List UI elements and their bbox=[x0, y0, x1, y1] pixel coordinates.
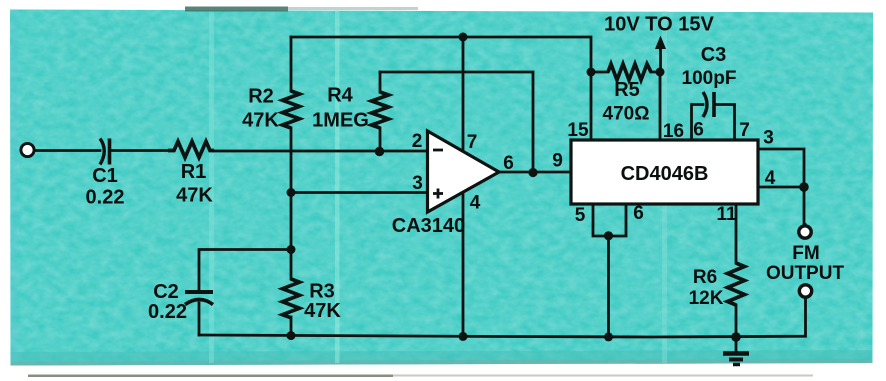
wire R3 bottom lead bbox=[290, 317, 293, 337]
svg-text:100pF: 100pF bbox=[682, 68, 737, 89]
FM output terminal bottom bbox=[799, 285, 811, 297]
svg-text:3: 3 bbox=[763, 128, 774, 149]
svg-text:12K: 12K bbox=[689, 288, 724, 309]
capacitor C1 bbox=[100, 139, 110, 165]
svg-text:15: 15 bbox=[567, 120, 589, 141]
svg-text:6: 6 bbox=[633, 203, 644, 224]
svg-text:11: 11 bbox=[716, 204, 737, 225]
IC U2 CD4046B bbox=[571, 140, 758, 204]
node bottom rail pin5/6 bbox=[604, 332, 613, 341]
wire IC pin5-pin6 link bbox=[593, 204, 626, 236]
svg-text:470Ω: 470Ω bbox=[603, 104, 650, 125]
wire FM bottom terminal down to bottom rail bbox=[199, 299, 806, 338]
pale scan stripes bbox=[209, 11, 214, 363]
node output bbox=[528, 168, 537, 177]
svg-text:7: 7 bbox=[467, 132, 478, 153]
svg-text:CA3140: CA3140 bbox=[392, 215, 465, 237]
bottom scan line bbox=[28, 375, 393, 378]
wire op-amp pin4 vertical bbox=[462, 188, 465, 337]
wire pin3 line bbox=[291, 191, 428, 194]
svg-text:R4: R4 bbox=[327, 85, 353, 107]
wire pin5/6 node down to bottom rail bbox=[607, 236, 610, 337]
svg-text:47K: 47K bbox=[176, 185, 213, 207]
svg-text:47K: 47K bbox=[242, 110, 279, 132]
resistor R2 bbox=[283, 91, 300, 128]
wire R2 bottom to pin3 node and down to C2 node bbox=[290, 128, 293, 279]
wire R4 top lead bbox=[379, 72, 382, 92]
resistor R6 bbox=[728, 263, 745, 305]
svg-text:CD4046B: CD4046B bbox=[621, 163, 709, 185]
svg-text:1MEG: 1MEG bbox=[312, 110, 369, 132]
resistor R1 bbox=[168, 142, 214, 158]
svg-text:16: 16 bbox=[663, 121, 684, 142]
supply arrow bbox=[655, 36, 666, 50]
wire op-amp pin7 vertical bbox=[462, 37, 465, 155]
op-amp U1 CA3140 bbox=[428, 131, 500, 212]
svg-text:4: 4 bbox=[470, 193, 481, 214]
svg-text:6: 6 bbox=[693, 120, 704, 141]
wire junction to FM top terminal bbox=[803, 187, 806, 225]
svg-text:3: 3 bbox=[412, 173, 423, 194]
resistor R3 bbox=[283, 279, 300, 318]
node bottom rail R3 bbox=[287, 331, 296, 340]
resistor R5 bbox=[608, 64, 651, 80]
node R4/pin2 bbox=[375, 147, 384, 156]
wire supply lead bbox=[659, 47, 662, 72]
wire pin16 vertical bbox=[659, 72, 662, 140]
wire input line bbox=[35, 149, 101, 152]
svg-text:C3: C3 bbox=[701, 44, 727, 66]
svg-text:FM: FM bbox=[792, 243, 819, 264]
node R5 right bbox=[656, 68, 665, 77]
svg-text:6: 6 bbox=[503, 153, 514, 174]
wire top rail bbox=[291, 37, 591, 72]
node bottom rail R6/gnd bbox=[731, 332, 741, 342]
svg-text:C1: C1 bbox=[92, 165, 118, 187]
resistor R4 bbox=[372, 92, 389, 128]
wire C2 top branch bbox=[199, 250, 291, 290]
wire IC pin4 to junction bbox=[758, 186, 804, 189]
wire R6 bottom lead bbox=[735, 305, 738, 337]
wire R2 top lead from rail bbox=[290, 37, 293, 91]
wire pin15 vertical bbox=[590, 72, 593, 140]
wire R1 to op-amp pin2 bbox=[214, 150, 428, 153]
svg-text:0.22: 0.22 bbox=[148, 301, 187, 323]
svg-text:7: 7 bbox=[739, 120, 750, 141]
svg-text:R1: R1 bbox=[181, 161, 207, 183]
node bottom rail pin4 bbox=[459, 332, 468, 341]
node top rail pin7 bbox=[459, 33, 468, 42]
wire IC pin11 to R6 bbox=[735, 204, 738, 263]
svg-text:9: 9 bbox=[552, 151, 563, 172]
node R2/pin3 bbox=[287, 188, 296, 197]
capacitor C2 bbox=[185, 292, 213, 305]
capacitor C3 bbox=[703, 92, 714, 117]
svg-text:4: 4 bbox=[765, 168, 776, 189]
top scan smudge bbox=[185, 7, 288, 12]
bottom darker edge of panel bbox=[11, 350, 873, 366]
wire C3 loop bbox=[692, 105, 704, 141]
svg-text:0.22: 0.22 bbox=[86, 187, 125, 209]
svg-text:5: 5 bbox=[575, 205, 586, 226]
wire C2 bottom lead bbox=[198, 303, 201, 335]
node pin3/4 join bbox=[799, 182, 809, 192]
wire R4 bottom lead bbox=[379, 128, 382, 151]
wire C1 to R1 bbox=[110, 149, 168, 152]
input terminal bbox=[21, 143, 34, 156]
svg-text:C2: C2 bbox=[153, 281, 179, 303]
node C2 top bbox=[287, 245, 296, 254]
wire IC pin3 to corner bbox=[758, 149, 804, 187]
node pin5/6 bbox=[604, 231, 613, 240]
wire R5 leads bbox=[591, 71, 608, 74]
svg-text:OUTPUT: OUTPUT bbox=[766, 263, 845, 284]
svg-text:10V TO 15V: 10V TO 15V bbox=[604, 14, 714, 36]
svg-text:47K: 47K bbox=[304, 300, 341, 322]
wire op-amp output to IC pin9 bbox=[498, 171, 571, 174]
wire feedback vertical from output node bbox=[380, 72, 533, 172]
svg-text:R2: R2 bbox=[248, 86, 274, 108]
svg-text:R6: R6 bbox=[693, 267, 717, 288]
ground bbox=[723, 337, 749, 365]
FM output terminal top bbox=[799, 226, 811, 238]
node R5 left bbox=[587, 68, 596, 77]
svg-text:2: 2 bbox=[412, 131, 423, 152]
svg-text:R5: R5 bbox=[614, 79, 640, 101]
